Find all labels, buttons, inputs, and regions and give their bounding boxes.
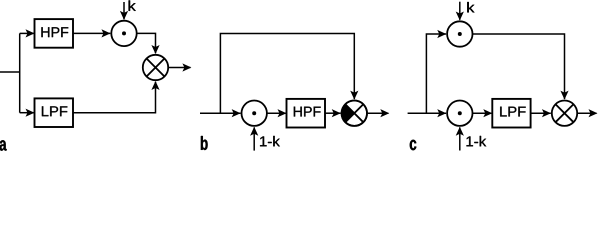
multiplier M2 circle-dot b bbox=[242, 101, 267, 126]
wire 1-k arrow b bbox=[253, 127, 255, 150]
box HPF a bbox=[35, 19, 74, 48]
wire LPF to mixer c bbox=[531, 112, 551, 114]
mixer X3 circle-cross c bbox=[552, 101, 577, 126]
wire multiplier to HPF b bbox=[267, 112, 286, 114]
label k a bbox=[129, 0, 136, 10]
wire k arrow c bbox=[459, 2, 461, 20]
wire input stub a bbox=[0, 71, 20, 73]
label LPF a bbox=[42, 106, 67, 116]
label LPF c bbox=[500, 107, 525, 117]
wire 1-k arrow c bbox=[459, 127, 461, 150]
label HPF a bbox=[41, 27, 68, 37]
mixer X1 circle-cross a bbox=[143, 55, 168, 80]
wire feedforward top b bbox=[220, 34, 354, 114]
label HPF b bbox=[294, 107, 321, 117]
label k c bbox=[467, 2, 474, 12]
multiplier M3 circle-dot top c bbox=[447, 21, 472, 46]
wire top multiplier to mixer c bbox=[473, 34, 565, 99]
wire to HPF a bbox=[20, 32, 34, 34]
mixer X2 half-filled circle-cross b bbox=[342, 101, 367, 126]
label a bbox=[0, 140, 7, 150]
multiplier M4 circle-dot bottom c bbox=[447, 101, 472, 126]
wire output a bbox=[168, 67, 190, 69]
box LPF a bbox=[35, 98, 74, 127]
wire multiplier to mixer a bbox=[137, 33, 156, 53]
label 1-k c bbox=[467, 136, 487, 146]
wire output b bbox=[367, 112, 388, 114]
wire to LPF a bbox=[20, 112, 34, 114]
label 1-k b bbox=[260, 136, 280, 146]
label c bbox=[410, 140, 416, 150]
wire HPF to mixer b bbox=[325, 112, 341, 114]
wire branch to top multiplier c bbox=[426, 34, 446, 113]
wire branch vertical a bbox=[19, 33, 21, 112]
box LPF c bbox=[492, 99, 530, 128]
wire input b bbox=[200, 112, 241, 114]
wire output c bbox=[577, 112, 596, 114]
wire k arrow a bbox=[123, 2, 125, 19]
wire HPF to multiplier a bbox=[73, 32, 110, 34]
wire multiplier to LPF c bbox=[473, 112, 492, 114]
wire LPF to mixer a bbox=[73, 82, 156, 113]
wire input c bbox=[408, 112, 447, 114]
multiplier M1 circle-dot a bbox=[111, 21, 136, 46]
box HPF b bbox=[287, 99, 326, 128]
label b bbox=[201, 136, 208, 150]
